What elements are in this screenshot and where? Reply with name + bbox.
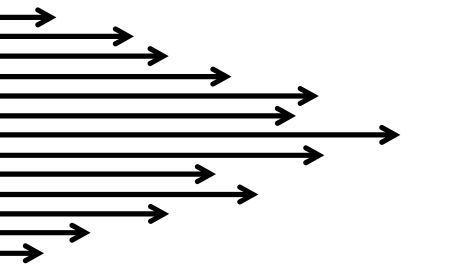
arrow 7 bbox=[0, 125, 400, 145]
arrow 4 bbox=[0, 67, 232, 87]
arrow 10 bbox=[0, 185, 258, 205]
arrow 5 bbox=[0, 86, 319, 106]
arrow 3 bbox=[0, 46, 169, 66]
arrow 13 bbox=[0, 243, 44, 263]
arrow 9 bbox=[0, 164, 216, 184]
arrow 6 bbox=[0, 106, 296, 126]
arrow 12 bbox=[0, 223, 91, 243]
arrow 1 bbox=[0, 7, 56, 27]
arrow 11 bbox=[0, 204, 169, 224]
arrow 8 bbox=[0, 145, 324, 165]
arrow 2 bbox=[0, 26, 134, 46]
